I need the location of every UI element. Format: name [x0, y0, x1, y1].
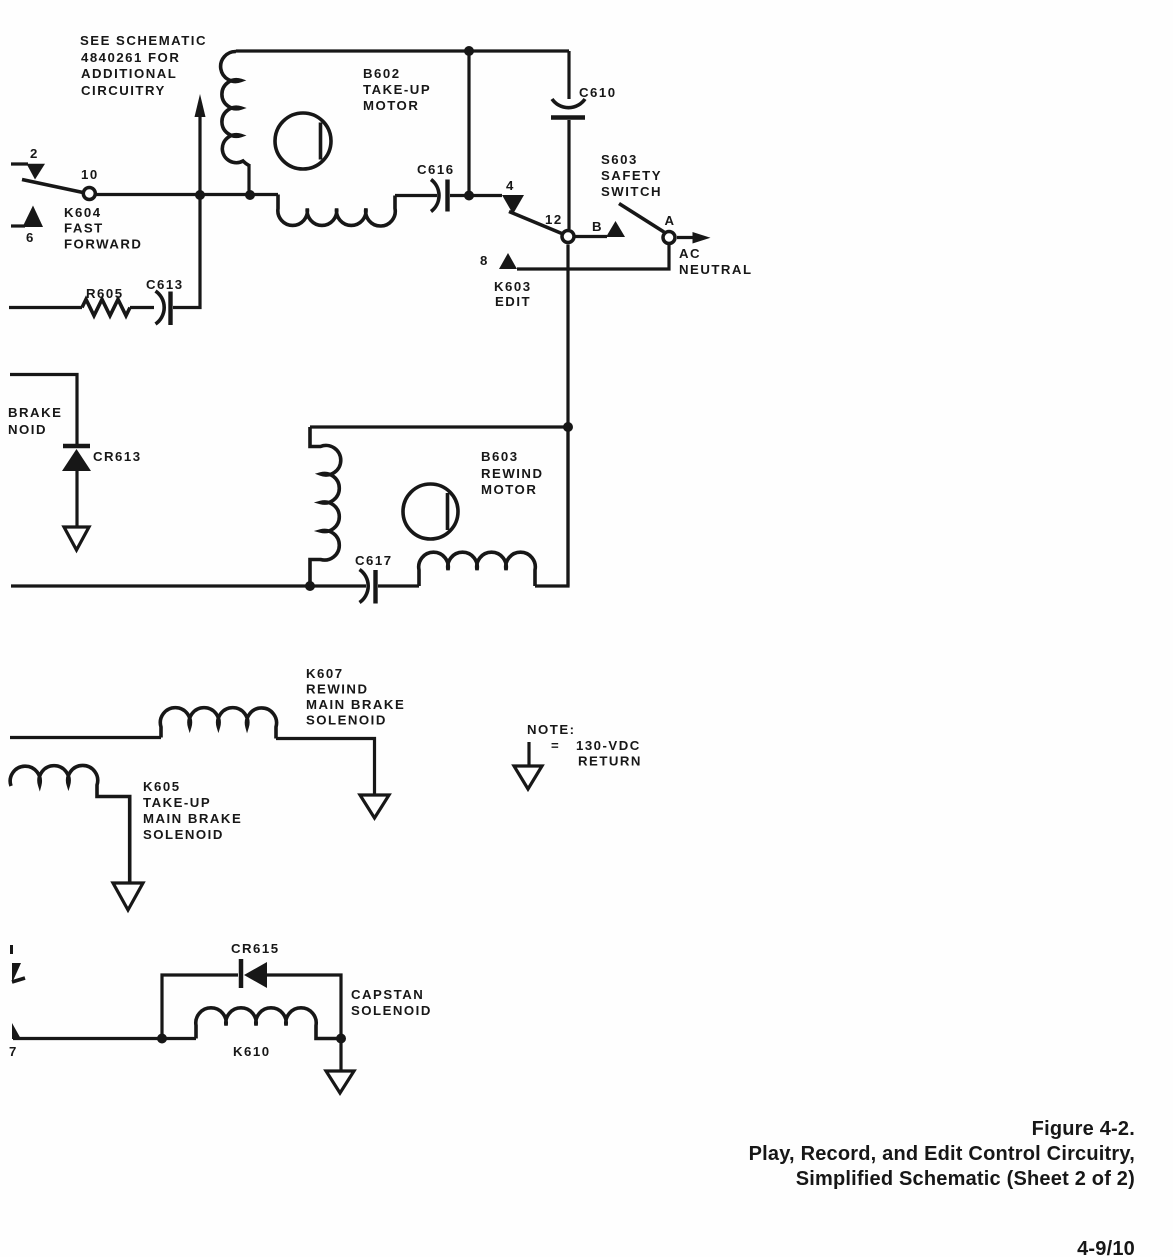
label CAPSTAN SOLENOID [351, 987, 432, 1018]
label S603 safety switch [601, 152, 662, 199]
wire contact A down and left to flag 8 [517, 245, 669, 269]
contact flag 4 (triangle) [502, 195, 524, 214]
inductor relay coil K607 [160, 708, 276, 739]
motor symbol B602 [275, 113, 331, 169]
svg-text:REWIND: REWIND [306, 682, 368, 697]
contact flag 8 (triangle) [499, 253, 517, 269]
svg-text:A: A [665, 213, 676, 228]
wire main bus y=195 [96, 193, 278, 196]
inductor relay coil K605 (cut at left edge) [10, 765, 130, 883]
svg-text:TAKE-UP: TAKE-UP [143, 795, 211, 810]
motor symbol B603 [403, 484, 458, 539]
switch arm K604 [22, 180, 83, 193]
wire C613 to R605 [130, 306, 154, 309]
wire vertical x=569 C610 to contact 12 [567, 120, 570, 229]
svg-text:R605: R605 [86, 286, 124, 301]
svg-text:MOTOR: MOTOR [481, 482, 537, 497]
svg-text:4: 4 [506, 178, 515, 193]
switch arm K603 contact 4 to 12 [509, 212, 563, 235]
wire R605 to left edge [9, 306, 82, 309]
svg-text:10: 10 [81, 167, 99, 182]
svg-text:MAIN BRAKE: MAIN BRAKE [143, 811, 242, 826]
node junction (162,1038.5) [157, 1034, 167, 1044]
diode CR613 [62, 446, 142, 471]
contact circle 12 [562, 231, 574, 243]
svg-text:B603: B603 [481, 449, 519, 464]
svg-text:Figure 4-2.: Figure 4-2. [1032, 1118, 1135, 1140]
svg-text:TAKE-UP: TAKE-UP [363, 82, 431, 97]
ground K605 [113, 883, 143, 910]
contact flag B (triangle) [606, 221, 625, 237]
svg-text:SOLENOID: SOLENOID [143, 827, 224, 842]
node junction (341,1038.5) [336, 1034, 346, 1044]
svg-text:RETURN: RETURN [578, 754, 642, 769]
svg-text:AC: AC [679, 246, 701, 261]
wire top bus y=51 [236, 49, 569, 52]
node junction (310,586) [305, 581, 315, 591]
svg-text:NOTE:: NOTE: [527, 722, 576, 737]
wire coil bottom to junction [247, 164, 250, 195]
node junction (200,195) [195, 190, 205, 200]
svg-text:CAPSTAN: CAPSTAN [351, 987, 424, 1002]
label K605 take-up main brake solenoid [143, 779, 242, 842]
label K607 rewind main brake solenoid [306, 666, 405, 728]
svg-text:C613: C613 [146, 277, 184, 292]
label brake solenoid (cut at edge) [8, 405, 62, 437]
svg-text:C617: C617 [355, 553, 393, 568]
label K603 EDIT [494, 279, 532, 309]
svg-text:BRAKE: BRAKE [8, 405, 62, 420]
wire AC neutral arrow [677, 232, 711, 244]
svg-text:SWITCH: SWITCH [601, 184, 662, 199]
node junction (568,427) [563, 422, 573, 432]
wire coil to corner x=568 [535, 427, 568, 586]
contact circle 10 [83, 188, 95, 200]
wire vertical x=569 top to C610 [567, 51, 570, 99]
wire K607 right lead to ground [276, 739, 375, 796]
svg-text:6: 6 [26, 230, 35, 245]
svg-text:4-9/10: 4-9/10 [1077, 1238, 1135, 1257]
node junction (250,195) [245, 190, 255, 200]
svg-text:B602: B602 [363, 66, 401, 81]
contact flag 2 (triangle) [27, 164, 46, 180]
wire CR615 branch left riser [162, 975, 238, 1039]
svg-text:NEUTRAL: NEUTRAL [679, 262, 753, 277]
note: see schematic text [80, 33, 207, 98]
wire CR615 to right corner [267, 975, 341, 1071]
svg-text:FAST: FAST [64, 221, 104, 236]
svg-text:REWIND: REWIND [481, 466, 543, 481]
svg-text:K603: K603 [494, 279, 532, 294]
wire x=200 down to R605 branch [173, 195, 200, 308]
label B603 rewind motor [481, 449, 543, 497]
capacitor C610 [551, 85, 617, 118]
svg-text:MAIN BRAKE: MAIN BRAKE [306, 697, 405, 712]
svg-text:Play, Record, and Edit Control: Play, Record, and Edit Control Circuitry… [749, 1143, 1135, 1165]
svg-text:SAFETY: SAFETY [601, 168, 662, 183]
svg-text:K605: K605 [143, 779, 181, 794]
label B602 take-up motor [363, 66, 431, 113]
contact flag 7 (cut triangle at edge) [12, 1023, 21, 1039]
inductor B603 phase winding (bottom horizontal coil) [419, 552, 536, 586]
wire B603 top bus y=427 [310, 425, 568, 428]
ground symbol in note [514, 742, 542, 789]
svg-text:C616: C616 [417, 162, 455, 177]
wire CR613 to ground [75, 471, 78, 527]
svg-text:130-VDC: 130-VDC [576, 738, 641, 753]
ground CR613 return [64, 527, 89, 550]
capacitor C617 [355, 553, 393, 604]
node junction (469,195.5) [464, 191, 474, 201]
svg-text:B: B [592, 219, 603, 234]
wire C617 to B603 phase coil [378, 584, 419, 587]
svg-text:ADDITIONAL: ADDITIONAL [81, 66, 177, 81]
svg-text:SOLENOID: SOLENOID [306, 713, 387, 728]
wire coil to C616 [395, 194, 437, 197]
svg-text:Simplified Schematic (Sheet 2: Simplified Schematic (Sheet 2 of 2) [796, 1168, 1135, 1190]
ground K610 [326, 1071, 354, 1093]
label AC NEUTRAL [679, 246, 753, 277]
svg-text:4840261 FOR: 4840261 FOR [81, 50, 180, 65]
diode CR615 [231, 941, 280, 988]
wire contact 12 to B flag [576, 235, 608, 238]
wire bottom bus y=586 left [11, 584, 366, 587]
resistor R605 [82, 299, 130, 315]
svg-text:EDIT: EDIT [495, 294, 531, 309]
contact flag 6 (triangle) [23, 206, 44, 228]
svg-text:SEE SCHEMATIC: SEE SCHEMATIC [80, 33, 207, 48]
partial switch arm at left edge [10, 945, 25, 983]
capacitor C616 [417, 162, 455, 212]
wire C616 to contact 4 [450, 194, 502, 197]
svg-text:CR613: CR613 [93, 449, 142, 464]
label K604 FAST FORWARD [64, 205, 142, 252]
svg-text:FORWARD: FORWARD [64, 237, 142, 252]
svg-text:K604: K604 [64, 205, 102, 220]
ground K607 [360, 795, 389, 818]
svg-text:NOID: NOID [8, 422, 47, 437]
wire stub for flag 2 [11, 162, 28, 165]
inductor B602 phase winding (bottom horizontal coil) [278, 195, 395, 227]
svg-text:CIRCUITRY: CIRCUITRY [81, 83, 166, 98]
svg-text:K610: K610 [233, 1044, 271, 1059]
svg-text:K607: K607 [306, 666, 344, 681]
svg-text:C610: C610 [579, 85, 617, 100]
svg-text:2: 2 [30, 146, 39, 161]
svg-text:CR615: CR615 [231, 941, 280, 956]
svg-text:SOLENOID: SOLENOID [351, 1003, 432, 1018]
wire K607 left lead y=737.5 [10, 736, 161, 739]
svg-text:S603: S603 [601, 152, 638, 167]
svg-text:12: 12 [545, 212, 563, 227]
wire vertical junction riser x=469 [467, 51, 470, 196]
node junction (469,51) [464, 46, 474, 56]
wire arrow up x=200 [195, 94, 206, 195]
contact circle A [663, 232, 675, 244]
svg-text:MOTOR: MOTOR [363, 98, 419, 113]
wire vertical contact 12 down x=568 [566, 245, 569, 587]
inductor B602 main winding (left vertical coil) [221, 51, 249, 165]
caption figure 4-2 [749, 1118, 1135, 1190]
capacitor C613 [146, 277, 184, 325]
svg-text:7: 7 [9, 1044, 18, 1059]
switch arm S603 [619, 204, 664, 233]
wire stub for flag 6 [11, 224, 25, 227]
inductor relay coil K610 [196, 1008, 341, 1039]
wire brake solenoid stub [10, 375, 77, 445]
svg-text:=: = [551, 738, 560, 753]
svg-text:8: 8 [480, 253, 489, 268]
label note equals 130-VDC RETURN [551, 738, 642, 769]
wire bottom bus y=1038.5 [13, 1037, 196, 1040]
inductor B603 main winding (left vertical coil) [310, 427, 341, 586]
